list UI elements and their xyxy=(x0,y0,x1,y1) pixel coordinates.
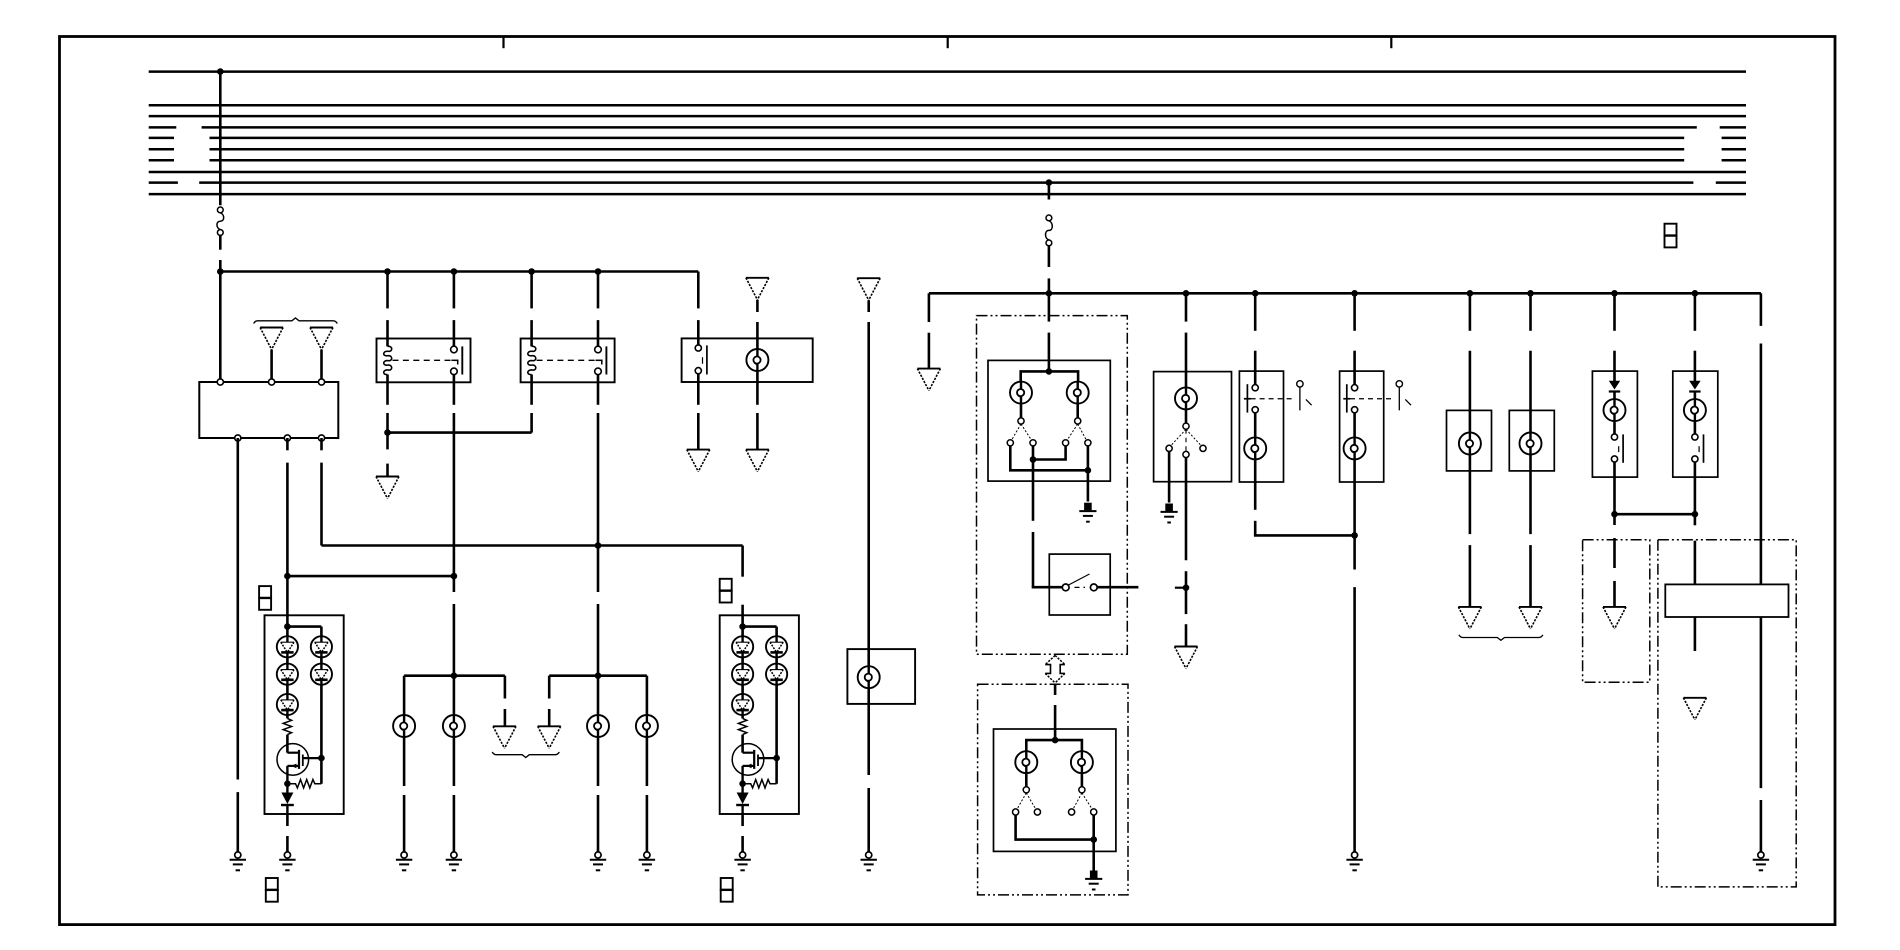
lamp L3 xyxy=(443,715,465,737)
switch SA xyxy=(1252,385,1258,391)
switch contacts xyxy=(1013,809,1019,815)
bus wire 1 xyxy=(149,70,1746,73)
switch SB xyxy=(1352,385,1358,391)
interior light LED unit xyxy=(265,615,344,814)
node xyxy=(451,573,458,580)
wire xyxy=(1185,293,1188,321)
front door light unit xyxy=(988,360,1110,481)
wire xyxy=(1185,409,1188,423)
wire xyxy=(1081,773,1084,787)
roof module outline xyxy=(1658,540,1796,887)
frame tick 2 xyxy=(947,37,949,49)
lamp vanity F xyxy=(1684,399,1706,421)
switch contacts xyxy=(1063,440,1069,446)
switch pivot xyxy=(1183,423,1189,429)
node xyxy=(217,268,224,275)
ground G10 xyxy=(1085,871,1102,890)
bus wire 10 xyxy=(149,193,1746,196)
node xyxy=(384,268,391,275)
node xyxy=(284,573,291,580)
wire distribution bus B xyxy=(929,292,1761,295)
node xyxy=(528,268,535,275)
arrow to ground A xyxy=(376,477,399,499)
wire xyxy=(1254,413,1257,438)
LED D5 xyxy=(766,664,787,685)
wire xyxy=(1613,421,1616,434)
wire xyxy=(1021,371,1078,381)
wire xyxy=(1076,404,1079,418)
wire xyxy=(741,657,744,663)
wire xyxy=(286,438,289,450)
node xyxy=(1467,290,1474,297)
wire xyxy=(403,737,406,786)
node xyxy=(1527,290,1534,297)
LED D3 xyxy=(277,694,298,715)
node xyxy=(1252,290,1259,297)
switch vanity F xyxy=(1692,434,1698,440)
wire xyxy=(1185,458,1188,561)
ground G4 xyxy=(590,852,606,870)
tailgate module outline xyxy=(978,684,1128,895)
arrow to ground B xyxy=(687,450,710,472)
frame tick 1 xyxy=(502,37,504,49)
switch contacts xyxy=(1007,440,1013,446)
wire xyxy=(1469,455,1472,534)
resistor R2 xyxy=(287,780,321,788)
ground G13 xyxy=(1753,852,1769,870)
bus wire 6 xyxy=(149,148,174,151)
spot light unit B xyxy=(1340,371,1384,482)
dome light switch unit xyxy=(682,338,813,382)
LED D1 xyxy=(732,636,753,657)
wire xyxy=(219,235,222,249)
node xyxy=(595,268,602,275)
integrated control unit xyxy=(199,382,338,438)
ground G9 xyxy=(1079,503,1096,522)
wire xyxy=(597,272,600,309)
bus wire 2 xyxy=(149,104,1746,107)
wire xyxy=(530,272,533,309)
wire xyxy=(1469,293,1472,331)
wire xyxy=(775,657,778,663)
diode D6 xyxy=(736,784,749,814)
node xyxy=(1611,511,1618,518)
node xyxy=(595,542,602,549)
connector C4 xyxy=(721,878,733,902)
wire xyxy=(741,546,744,577)
wire xyxy=(1025,773,1028,787)
node xyxy=(384,429,391,436)
lamp L2 xyxy=(393,715,415,737)
wire xyxy=(1048,293,1051,321)
wire xyxy=(1613,392,1616,400)
wire lamp row A xyxy=(404,674,505,677)
ground G6 xyxy=(279,852,295,870)
wire xyxy=(1613,477,1616,514)
wire xyxy=(756,371,759,405)
arrow to fuse box xyxy=(928,293,931,322)
wire xyxy=(1353,459,1356,569)
node xyxy=(1351,290,1358,297)
wire xyxy=(756,300,759,312)
brace inputs xyxy=(254,318,338,324)
wire xyxy=(1033,446,1066,460)
lamp L5 xyxy=(636,715,658,737)
courtesy light C xyxy=(1447,410,1492,471)
node xyxy=(1046,368,1053,375)
switch S1 xyxy=(1062,584,1069,591)
brace ground arrows 2 xyxy=(1459,635,1543,641)
wire xyxy=(1016,815,1094,840)
node xyxy=(1052,737,1059,744)
wire xyxy=(1048,183,1051,200)
wire xyxy=(320,438,323,450)
diode E xyxy=(1609,381,1620,392)
node xyxy=(1351,532,1358,539)
wire xyxy=(1048,246,1051,267)
wire xyxy=(1353,293,1356,331)
LED D2 xyxy=(732,664,753,685)
wire xyxy=(1613,462,1616,477)
node xyxy=(1090,836,1097,843)
lamp spot A xyxy=(1244,437,1266,459)
wire xyxy=(1529,455,1532,534)
lamp L6 xyxy=(858,666,880,688)
bus wire 4 xyxy=(149,126,177,129)
lamp L9 xyxy=(1015,751,1037,773)
bus wire 8 xyxy=(149,171,1746,174)
wire xyxy=(1026,740,1082,751)
wire xyxy=(597,382,600,405)
wire xyxy=(403,676,406,715)
wire xyxy=(286,715,289,718)
wire xyxy=(867,300,870,312)
lamp courtesy D xyxy=(1520,433,1542,455)
node xyxy=(739,780,746,787)
wire xyxy=(646,676,649,715)
wire xyxy=(1694,477,1697,514)
wire xyxy=(1010,446,1088,470)
wire xyxy=(775,685,778,784)
wire xyxy=(320,685,323,784)
frame tick 3 xyxy=(1390,37,1392,49)
node xyxy=(1692,290,1699,297)
ground G12 xyxy=(1346,852,1362,870)
arrow to ground I xyxy=(1683,698,1706,720)
wire xyxy=(1694,514,1697,525)
wire xyxy=(1613,293,1616,331)
courtesy light D xyxy=(1509,410,1554,471)
wire xyxy=(270,350,273,380)
wire xyxy=(286,735,289,753)
switch pivot xyxy=(1018,418,1024,424)
lamp vanity E xyxy=(1604,399,1626,421)
node xyxy=(1183,290,1190,297)
wire xyxy=(286,685,289,694)
vanity light unit F xyxy=(1673,371,1718,477)
relay K2 xyxy=(521,339,615,383)
wire xyxy=(741,715,744,718)
arrow to ground F xyxy=(1175,647,1198,669)
arrow to ground H xyxy=(1603,607,1626,629)
switch pivot xyxy=(1075,418,1081,424)
ground G8 xyxy=(861,852,877,870)
wire xyxy=(1168,452,1171,503)
wire xyxy=(1087,446,1090,502)
wire xyxy=(597,737,600,786)
wire xyxy=(453,272,456,309)
node xyxy=(451,268,458,275)
door courtesy module outline xyxy=(977,316,1128,655)
arrow input 2 xyxy=(310,328,333,350)
diode F xyxy=(1689,381,1700,392)
ground G11 xyxy=(1161,504,1178,523)
tailgate light unit xyxy=(994,729,1116,851)
LED D4 xyxy=(766,636,787,657)
linkage arrow xyxy=(1045,655,1065,683)
wire xyxy=(1694,462,1697,477)
wire xyxy=(1032,460,1035,521)
door switch box xyxy=(1049,554,1110,615)
transistor Q1 xyxy=(277,744,321,784)
wire lamp row B xyxy=(549,674,647,677)
wire xyxy=(286,814,289,826)
diode D6 xyxy=(281,784,294,814)
wire xyxy=(388,431,532,434)
wire xyxy=(867,688,870,775)
resistor R1 xyxy=(283,718,291,734)
node xyxy=(1085,467,1092,474)
relay K1 xyxy=(377,339,471,383)
LED D5 xyxy=(311,664,332,685)
wire xyxy=(1054,684,1057,695)
wire xyxy=(1353,413,1356,438)
switch vanity E xyxy=(1611,434,1617,440)
wire xyxy=(287,575,454,578)
wire xyxy=(1760,293,1763,326)
switch pivot xyxy=(1023,787,1029,793)
wire xyxy=(453,737,456,786)
interior light LED unit xyxy=(720,615,799,814)
switch pivot xyxy=(1079,787,1085,793)
wire xyxy=(386,382,389,405)
bus wire 7 xyxy=(149,159,174,162)
LED D2 xyxy=(277,664,298,685)
wire link xyxy=(1615,513,1695,516)
arrow to ground C xyxy=(746,450,769,472)
wire xyxy=(1613,514,1616,525)
door switch unit B xyxy=(1154,372,1232,482)
ground G1 xyxy=(230,852,246,870)
connector C5 xyxy=(1665,224,1677,248)
wire xyxy=(504,676,507,699)
node gate xyxy=(318,755,325,762)
LED D4 xyxy=(311,636,332,657)
wire xyxy=(741,814,744,826)
wire xyxy=(237,438,240,780)
wire xyxy=(1092,815,1095,870)
wire xyxy=(1254,459,1257,509)
transistor Q1 xyxy=(732,744,776,784)
ground G3 xyxy=(446,852,462,870)
LED D3 xyxy=(732,694,753,715)
lamp spot B xyxy=(1344,437,1366,459)
bus wire 5 xyxy=(149,137,174,140)
wire xyxy=(741,735,744,753)
wire xyxy=(1254,293,1257,331)
wire xyxy=(1694,293,1697,331)
node accessory feed xyxy=(1046,179,1053,186)
brace ground arrows xyxy=(492,752,559,758)
wire xyxy=(697,272,700,309)
wire xyxy=(697,374,700,405)
fuse F1 xyxy=(217,207,224,235)
node xyxy=(595,672,602,679)
connector C1 xyxy=(259,586,271,610)
sunroof module outline xyxy=(1583,540,1650,683)
arrow to ground C xyxy=(1458,607,1481,629)
lamp L11 xyxy=(1175,387,1197,409)
control label box xyxy=(1665,584,1788,617)
arrow from fuse xyxy=(746,278,769,300)
node xyxy=(451,672,458,679)
connector C3 xyxy=(720,579,732,603)
lamp L4 xyxy=(587,715,609,737)
arrow input 1 xyxy=(260,328,283,350)
wire xyxy=(286,657,289,663)
node xyxy=(1046,290,1053,297)
wire xyxy=(548,676,551,699)
cargo area light xyxy=(847,649,915,704)
vanity light unit E xyxy=(1592,371,1637,477)
ground G5 xyxy=(639,852,655,870)
wire distribution bus A xyxy=(220,270,698,273)
wire xyxy=(1529,293,1532,331)
node gate xyxy=(773,755,780,762)
wire xyxy=(530,382,533,405)
switch contacts xyxy=(1166,445,1172,451)
node xyxy=(1183,584,1190,591)
node battery feed xyxy=(217,68,224,75)
wire xyxy=(219,72,222,206)
lamp L7 xyxy=(1010,382,1032,404)
arrow to ground E xyxy=(538,726,561,748)
wire xyxy=(741,685,744,694)
lamp L10 xyxy=(1071,751,1093,773)
arrow to ground D xyxy=(493,726,516,748)
wire xyxy=(741,615,744,636)
resistor R1 xyxy=(738,718,746,734)
node xyxy=(1030,456,1037,463)
connector C2 xyxy=(266,878,278,902)
bus wire 3 xyxy=(149,115,1746,118)
wire xyxy=(453,382,456,405)
ground G7 xyxy=(734,852,750,870)
lamp L1 xyxy=(746,349,768,371)
arrow to ground D xyxy=(1519,607,1542,629)
wire xyxy=(322,544,743,547)
wire xyxy=(1694,421,1697,434)
fuse F2 xyxy=(1046,215,1053,246)
lamp courtesy C xyxy=(1459,433,1481,455)
wire xyxy=(320,657,323,663)
wire xyxy=(1020,404,1023,418)
node xyxy=(1692,511,1699,518)
node xyxy=(1611,290,1618,297)
LED D1 xyxy=(277,636,298,657)
node xyxy=(284,780,291,787)
wire xyxy=(1097,586,1138,589)
wire xyxy=(386,272,389,309)
spot light unit A xyxy=(1239,371,1283,482)
resistor R2 xyxy=(743,780,777,788)
wire xyxy=(1694,392,1697,400)
switch contacts xyxy=(1069,809,1075,815)
ground G2 xyxy=(396,852,412,870)
lamp L8 xyxy=(1067,382,1089,404)
bus wire 9 xyxy=(149,181,178,184)
arrow from fuse B xyxy=(857,278,880,300)
wire xyxy=(286,615,289,636)
wire xyxy=(320,350,323,380)
wire xyxy=(646,737,649,786)
